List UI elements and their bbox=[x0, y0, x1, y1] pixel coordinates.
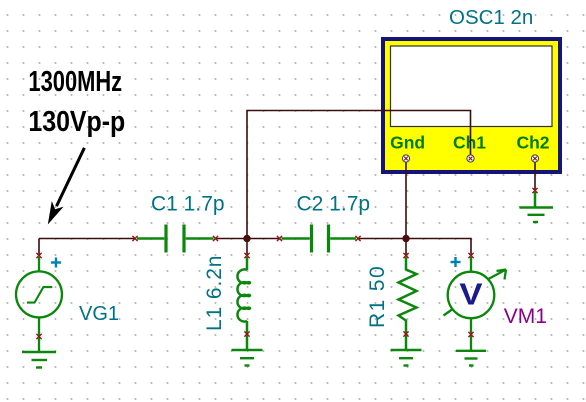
wire C1 to node A bbox=[216, 238, 280, 240]
wire VG1 to C1 bbox=[39, 239, 135, 256]
node B junction dot bbox=[402, 235, 409, 242]
ground below L1 bbox=[232, 350, 263, 366]
wire C2 to node B bbox=[358, 238, 406, 240]
inductor L1 bbox=[237, 257, 251, 350]
ground below Ch2 bbox=[520, 192, 554, 222]
capacitor C1 bbox=[137, 225, 214, 253]
svg-text:V: V bbox=[459, 276, 482, 311]
terminal Gnd bbox=[402, 155, 409, 162]
resistor R1 bbox=[399, 257, 417, 350]
svg-text:C2 1.7p: C2 1.7p bbox=[297, 193, 371, 216]
svg-text:C1 1.7p: C1 1.7p bbox=[151, 193, 225, 216]
wire Gnd to node B bbox=[405, 159, 407, 239]
wire Ch2 to ground bbox=[534, 159, 536, 191]
svg-text:VG1: VG1 bbox=[79, 303, 119, 325]
capacitor C2 bbox=[282, 225, 357, 253]
plus sign VM1 bbox=[451, 257, 461, 267]
svg-text:Ch2: Ch2 bbox=[516, 133, 549, 153]
ground below R1 bbox=[391, 350, 422, 366]
oscilloscope OSC1 body bbox=[381, 37, 562, 174]
voltage generator VG1 bbox=[16, 257, 62, 352]
wire node B to R1 bbox=[405, 239, 407, 256]
pin x marks bbox=[36, 188, 537, 339]
svg-text:VM1: VM1 bbox=[504, 305, 547, 328]
node A junction dot bbox=[243, 235, 250, 242]
voltmeter VM1 bbox=[444, 257, 507, 351]
plus sign VG1 bbox=[51, 258, 61, 268]
terminal Ch2 bbox=[531, 155, 538, 162]
svg-text:Ch1: Ch1 bbox=[453, 133, 486, 153]
svg-text:130Vp-p: 130Vp-p bbox=[28, 105, 125, 137]
svg-text:L1 6.2n: L1 6.2n bbox=[203, 255, 226, 331]
terminal Ch1 bbox=[467, 155, 474, 162]
svg-text:1300MHz: 1300MHz bbox=[28, 66, 122, 97]
annotation arrow bbox=[48, 148, 85, 225]
svg-text:OSC1 2n: OSC1 2n bbox=[449, 6, 533, 29]
ground below VG1 bbox=[22, 352, 56, 368]
wire node A to L1 bbox=[246, 239, 248, 256]
wire node A to Ch1 bbox=[247, 111, 471, 239]
ground below VM1 bbox=[456, 351, 486, 366]
svg-text:Gnd: Gnd bbox=[390, 133, 425, 153]
wire node B to VM1 bbox=[406, 239, 471, 256]
svg-text:R1 50: R1 50 bbox=[366, 265, 389, 328]
